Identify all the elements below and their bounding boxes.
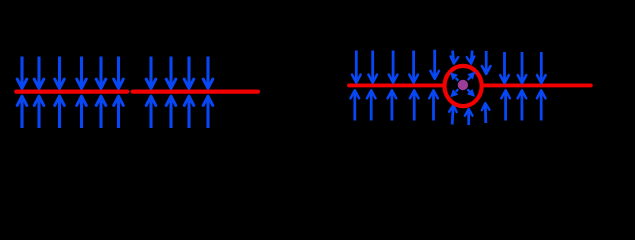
field arrow up L4 — [77, 96, 87, 128]
short field arrow down above circle left — [450, 51, 458, 64]
short field arrow up below circle left — [449, 105, 457, 125]
right charged sheet: red line left segment — [349, 83, 444, 87]
field arrow up R4 — [410, 90, 419, 120]
red circle highlight around point charge — [445, 66, 482, 106]
field arrow up R7 — [518, 90, 527, 120]
left charged sheet: red line segment 1 — [16, 89, 127, 93]
field arrow up R1 — [351, 90, 360, 120]
field arrow up R3 — [388, 90, 397, 120]
field arrow down L2 — [34, 57, 44, 89]
inner field arrow down-left — [450, 89, 458, 97]
field arrow down L4 — [77, 57, 87, 89]
field arrow down R5 — [430, 50, 439, 79]
field arrow down L7 — [146, 57, 156, 89]
field arrow up L8 — [166, 96, 176, 128]
field arrow up L1 — [17, 96, 27, 128]
short field arrow up below circle right — [482, 103, 490, 123]
field arrow up L6 — [114, 96, 124, 128]
field arrow up L2 — [34, 96, 44, 128]
short field arrow up below circle middle — [465, 109, 473, 125]
field arrow down L3 — [55, 57, 65, 89]
field arrow down R7 — [518, 52, 527, 83]
field arrow down R3 — [389, 51, 398, 83]
field arrow down R4 — [409, 51, 418, 83]
left charged sheet: red line segment 2 — [133, 89, 258, 93]
field arrow up L9 — [184, 96, 194, 128]
field arrow up R5 — [429, 90, 438, 120]
field arrow down L10 — [203, 57, 213, 89]
field arrow up L10 — [203, 96, 213, 128]
field arrow down L1 — [17, 57, 27, 89]
inner field arrow up-right — [467, 72, 475, 80]
field arrow up R2 — [367, 90, 376, 120]
point charge (purple dot) — [458, 80, 468, 90]
field arrow down R8 — [537, 52, 546, 83]
field arrow up L7 — [146, 96, 156, 128]
field arrow up R6 — [501, 90, 510, 120]
field arrow up R8 — [537, 90, 546, 120]
right charged sheet: red line right segment — [483, 83, 591, 87]
field arrow down R6 — [500, 52, 509, 83]
field arrow down L5 — [96, 57, 106, 89]
field arrow down R2 — [368, 51, 377, 83]
inner field arrow down-right — [467, 89, 475, 97]
field arrow down right of circle — [482, 51, 491, 74]
field arrow down L8 — [166, 57, 176, 89]
field arrow up L3 — [55, 96, 65, 128]
field arrow down L6 — [114, 57, 124, 89]
field arrow down R1 — [352, 51, 361, 83]
field arrow up L5 — [96, 96, 106, 128]
short field arrow down above circle right — [467, 51, 475, 64]
field arrow down L9 — [184, 57, 194, 89]
inner field arrow up-left — [450, 72, 458, 81]
